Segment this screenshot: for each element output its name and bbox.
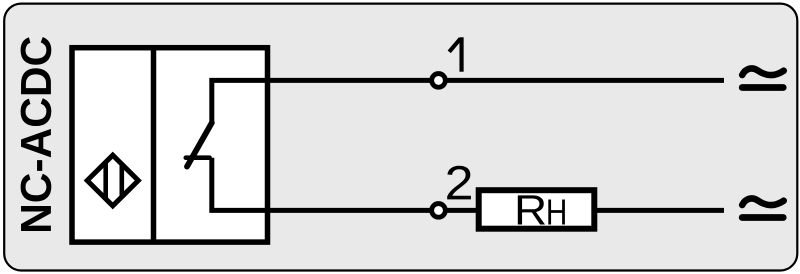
terminal 1 [432,74,446,88]
NC switch fixed contact tick [186,155,210,160]
NC switch contact blade [187,123,212,167]
wire bottom (pin 2 net) [212,158,724,211]
resistor RH (load) [479,190,595,229]
sensor body divider [151,48,157,242]
wire top (pin 1 net) [212,80,724,122]
pin label 1 [449,37,461,71]
sensor body U1 [72,48,268,242]
label NC-ACDC [21,37,52,231]
AC supply symbol bottom [742,199,784,218]
proximity sensor symbol (diamond) [87,155,138,206]
label RH [518,195,565,224]
pin label 2 [447,166,471,200]
terminal 2 [432,204,446,218]
AC supply symbol top [742,69,784,88]
